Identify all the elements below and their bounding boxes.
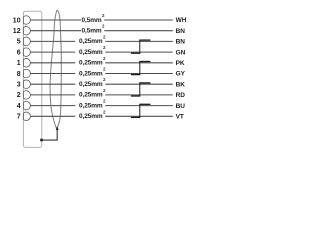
twisted pair symbol BK/RD <box>131 83 151 96</box>
wire pin 5 to BN <box>30 40 173 42</box>
twisted pair symbol BU/VT <box>131 104 151 117</box>
svg-text:0,25mm: 0,25mm <box>79 60 103 67</box>
socket contact pin 7 <box>24 112 31 120</box>
svg-text:BN: BN <box>176 39 186 46</box>
wire pin 8 to GY <box>30 73 173 75</box>
cable sheath ellipse (right edge) <box>57 10 62 129</box>
socket contact pin 10 <box>24 16 31 24</box>
socket contact pin 4 <box>24 101 31 109</box>
svg-text:0,25mm: 0,25mm <box>79 113 103 120</box>
svg-text:3: 3 <box>17 82 21 89</box>
connector body (plug housing) <box>23 11 41 147</box>
svg-text:0,5mm: 0,5mm <box>81 17 101 24</box>
socket contact pin 6 <box>24 48 31 56</box>
svg-text:12: 12 <box>13 28 21 35</box>
svg-text:2: 2 <box>103 56 106 61</box>
svg-text:0,25mm: 0,25mm <box>79 81 103 88</box>
svg-text:2: 2 <box>17 92 21 99</box>
svg-text:2: 2 <box>103 109 106 114</box>
twisted pair symbol BN/GN <box>131 40 151 53</box>
svg-text:BU: BU <box>176 103 186 110</box>
svg-text:4: 4 <box>17 103 21 110</box>
svg-text:2: 2 <box>102 13 105 18</box>
svg-text:2: 2 <box>103 45 106 50</box>
svg-text:BN: BN <box>176 28 186 35</box>
svg-text:BK: BK <box>176 81 186 88</box>
svg-text:10: 10 <box>13 17 21 24</box>
svg-text:RD: RD <box>176 92 186 99</box>
svg-text:0,5mm: 0,5mm <box>81 28 101 35</box>
wire pin 7 to VT <box>30 115 173 117</box>
svg-text:2: 2 <box>102 24 105 29</box>
svg-text:2: 2 <box>103 88 106 93</box>
svg-text:VT: VT <box>176 114 184 121</box>
svg-text:8: 8 <box>17 71 21 78</box>
twisted pair symbol PK/GY <box>131 62 151 75</box>
wire pin 12 to BN <box>30 30 173 32</box>
arrowhead pointing at cable sheath <box>56 126 59 130</box>
svg-text:6: 6 <box>17 49 21 56</box>
svg-text:0,25mm: 0,25mm <box>79 38 103 45</box>
cable sheath ellipse (left edge) <box>50 10 57 129</box>
svg-text:0,25mm: 0,25mm <box>79 70 103 77</box>
svg-text:WH: WH <box>176 17 187 24</box>
socket contact pin 5 <box>24 37 31 45</box>
socket contact pin 2 <box>24 91 31 99</box>
svg-text:PK: PK <box>176 60 185 67</box>
svg-text:1: 1 <box>17 60 21 67</box>
socket contact pin 3 <box>24 80 31 88</box>
wire pin 10 to WH <box>30 19 173 21</box>
wire pin 4 to BU <box>30 105 173 107</box>
svg-text:GN: GN <box>176 49 186 56</box>
svg-text:2: 2 <box>103 67 106 72</box>
svg-text:2: 2 <box>103 34 106 39</box>
wire pin 1 to PK <box>30 62 173 64</box>
svg-text:0,25mm: 0,25mm <box>79 102 103 109</box>
svg-text:GY: GY <box>176 71 186 78</box>
junction dot on housing <box>40 139 43 142</box>
svg-text:2: 2 <box>103 77 106 82</box>
socket contact pin 12 <box>24 26 31 34</box>
svg-text:0,25mm: 0,25mm <box>79 92 103 99</box>
svg-text:2: 2 <box>103 99 106 104</box>
svg-text:5: 5 <box>17 39 21 46</box>
wire pin 2 to RD <box>30 94 173 96</box>
wire pin 6 to GN <box>30 51 173 53</box>
svg-text:0,25mm: 0,25mm <box>79 49 103 56</box>
shield wire from housing to cable <box>42 129 58 141</box>
socket contact pin 8 <box>24 69 31 77</box>
socket contact pin 1 <box>24 59 31 67</box>
svg-text:7: 7 <box>17 114 21 121</box>
wire pin 3 to BK <box>30 83 173 85</box>
